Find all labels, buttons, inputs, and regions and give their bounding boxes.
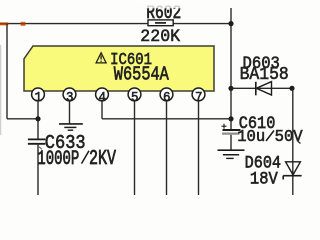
svg-text:3: 3	[66, 89, 74, 105]
svg-text:10u: 10u	[237, 127, 265, 147]
svg-text:5: 5	[131, 89, 139, 105]
svg-text:2KV: 2KV	[89, 147, 116, 171]
svg-text:18V: 18V	[250, 169, 278, 189]
svg-text:BA158: BA158	[240, 65, 289, 85]
svg-text:6: 6	[163, 89, 171, 105]
svg-text:W6554A: W6554A	[114, 64, 169, 86]
svg-text:4: 4	[98, 89, 106, 105]
svg-text:50V: 50V	[275, 127, 303, 147]
svg-text:7: 7	[195, 89, 203, 105]
svg-text:220K: 220K	[140, 28, 181, 48]
svg-text:1000P: 1000P	[37, 149, 79, 171]
svg-text:1: 1	[34, 89, 42, 105]
